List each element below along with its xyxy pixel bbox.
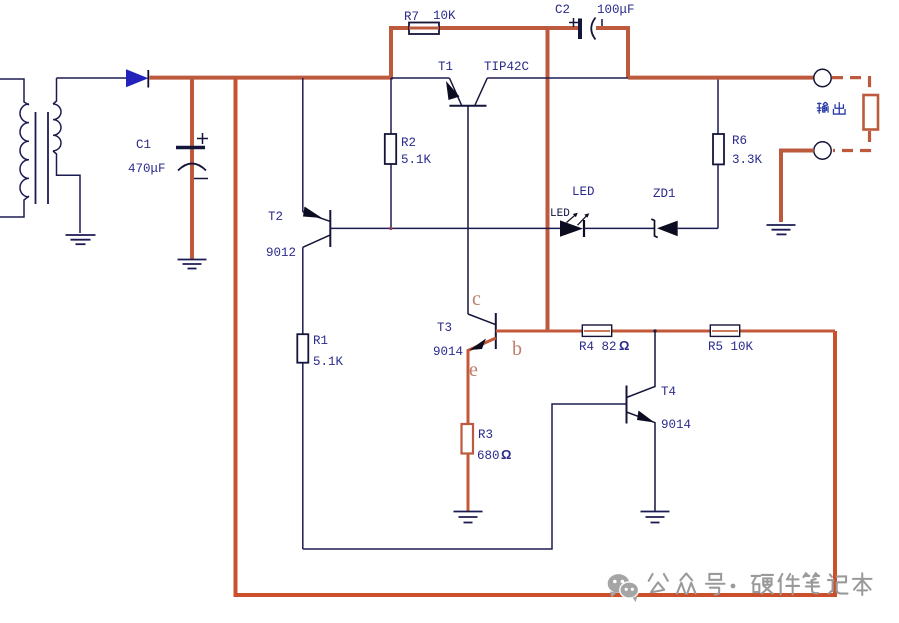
wire: output terminal 2 to ground <box>781 151 814 223</box>
wire: orange to output terminal <box>628 76 814 80</box>
ground G3 (output) <box>767 225 796 234</box>
svg-text:9012: 9012 <box>266 246 296 260</box>
resistor R7 <box>409 23 439 35</box>
svg-text:TIP42C: TIP42C <box>484 60 529 74</box>
transformer TR primary winding <box>20 104 29 197</box>
号 <box>706 574 725 595</box>
wire: C2 to output drop (orange) <box>596 28 628 78</box>
svg-text:T1: T1 <box>438 60 453 74</box>
resistor R1 <box>302 247 304 549</box>
resistor R4 <box>582 325 611 336</box>
wire: R7 riser and top rail (orange) <box>391 28 409 79</box>
svg-text:R6: R6 <box>732 134 747 148</box>
wire: left loop vertical (orange) <box>234 78 238 595</box>
resistor R2 <box>390 78 392 228</box>
junction dot (R2/T2) <box>389 227 392 230</box>
ground G2 (C1) <box>178 260 207 269</box>
watermark text 公众号·硬件笔记本 <box>649 573 872 595</box>
dashed lead from load bottom <box>833 131 870 151</box>
svg-text:R5 10K: R5 10K <box>708 340 754 354</box>
svg-text:Ω: Ω <box>501 447 511 462</box>
svg-text:T2: T2 <box>268 210 283 224</box>
wire: right loop vertical (orange) <box>833 331 837 597</box>
svg-text:470μF: 470μF <box>128 162 166 176</box>
wire: navy top rail T1 left <box>391 77 449 79</box>
ground G5 (T4) <box>641 512 670 523</box>
resistor R6 <box>717 78 719 228</box>
resistor R5 <box>710 325 739 336</box>
transformer TR secondary winding <box>53 104 61 151</box>
output terminal 2 <box>814 142 831 159</box>
svg-text:R1: R1 <box>313 334 328 348</box>
wire: T1 base via to T3 collector <box>468 314 496 325</box>
svg-text:c: c <box>472 288 481 310</box>
wire: navy top rail T1 right <box>487 77 628 79</box>
transformer TR secondary top lead <box>53 78 57 104</box>
ground G1 (transformer) <box>66 235 96 244</box>
junction dot (T4 collector) <box>653 329 656 332</box>
svg-text:R2: R2 <box>401 136 416 150</box>
wire: bottom loop (orange) <box>234 593 836 597</box>
svg-text:R3: R3 <box>478 428 493 442</box>
svg-text:5.1K: 5.1K <box>313 355 344 369</box>
· <box>731 584 736 589</box>
svg-text:LED: LED <box>550 208 570 220</box>
label 输出 <box>817 102 828 114</box>
众 <box>677 573 696 593</box>
svg-text:e: e <box>469 359 478 381</box>
LED diode <box>560 220 583 236</box>
wire: LED to zener <box>584 227 655 229</box>
svg-text:10K: 10K <box>433 9 456 23</box>
transformer TR core <box>36 112 49 204</box>
wire: R7 to C2 (orange) <box>439 26 578 30</box>
硬 <box>751 575 773 594</box>
svg-text:3.3K: 3.3K <box>732 153 763 167</box>
笔 <box>803 573 819 593</box>
dashed lead to load top <box>832 78 870 93</box>
watermark logo <box>608 574 639 602</box>
wire: secondary to diode <box>57 77 127 79</box>
svg-text:C2: C2 <box>555 3 570 17</box>
公 <box>649 574 668 592</box>
load resistor <box>864 95 879 130</box>
svg-text:9014: 9014 <box>661 418 691 432</box>
diode D1 <box>127 70 148 87</box>
transformer TR primary top lead <box>0 79 29 105</box>
resistor R3 (orange outline) <box>462 424 474 454</box>
capacitor C1 branch (orange) <box>190 78 194 259</box>
svg-text:100μF: 100μF <box>597 3 635 17</box>
wire: orange drop at x=547 <box>546 26 550 331</box>
svg-text:5.1K: 5.1K <box>401 153 432 167</box>
wire: zener to R6 <box>678 227 718 229</box>
output terminal 1 <box>814 69 831 86</box>
T3 emitter (orange) <box>468 338 496 511</box>
svg-text:Ω: Ω <box>619 338 629 353</box>
svg-text:R4 82: R4 82 <box>579 340 617 354</box>
transformer TR primary bottom lead <box>0 196 29 217</box>
ground G4 (R3) <box>454 512 483 523</box>
wire: main top rail (orange) diode to R7 riser <box>150 76 394 80</box>
transformer TR secondary bottom lead <box>53 151 80 233</box>
wire: T2 base to junction <box>330 227 560 229</box>
svg-text:ZD1: ZD1 <box>653 187 676 201</box>
本 <box>853 573 872 595</box>
svg-text:LED: LED <box>572 185 595 199</box>
wire: main orange rail y=331 <box>496 330 835 333</box>
wire: bottom link R1 to T4 base <box>303 404 627 549</box>
记 <box>828 574 848 593</box>
svg-text:C1: C1 <box>136 138 151 152</box>
件 <box>778 574 799 595</box>
svg-text:R7: R7 <box>404 10 419 24</box>
svg-text:680: 680 <box>477 449 500 463</box>
svg-text:T3: T3 <box>437 321 452 335</box>
svg-text:b: b <box>512 338 522 360</box>
svg-text:T4: T4 <box>661 385 676 399</box>
svg-text:9014: 9014 <box>433 345 463 359</box>
